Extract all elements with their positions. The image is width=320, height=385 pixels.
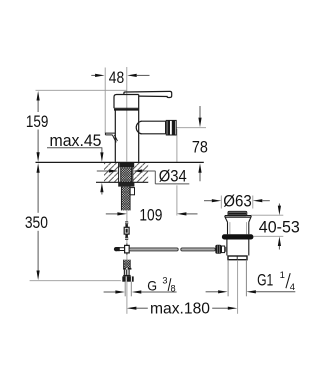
- svg-text:109: 109: [139, 206, 162, 225]
- svg-text:G1: G1: [257, 271, 273, 290]
- svg-text:159: 159: [26, 112, 49, 131]
- svg-text:Ø63: Ø63: [223, 192, 252, 211]
- svg-text:max.180: max.180: [150, 300, 210, 317]
- svg-text:G: G: [147, 277, 157, 293]
- svg-text:40-53: 40-53: [259, 218, 300, 237]
- svg-text:8: 8: [171, 284, 176, 294]
- svg-text:1: 1: [280, 270, 285, 281]
- svg-text:max.45: max.45: [50, 132, 102, 150]
- svg-text:3: 3: [162, 276, 167, 286]
- svg-text:350: 350: [25, 213, 48, 232]
- svg-text:48: 48: [109, 68, 124, 87]
- svg-text:4: 4: [290, 282, 295, 293]
- svg-text:78: 78: [192, 137, 208, 156]
- svg-text:Ø34: Ø34: [159, 166, 187, 185]
